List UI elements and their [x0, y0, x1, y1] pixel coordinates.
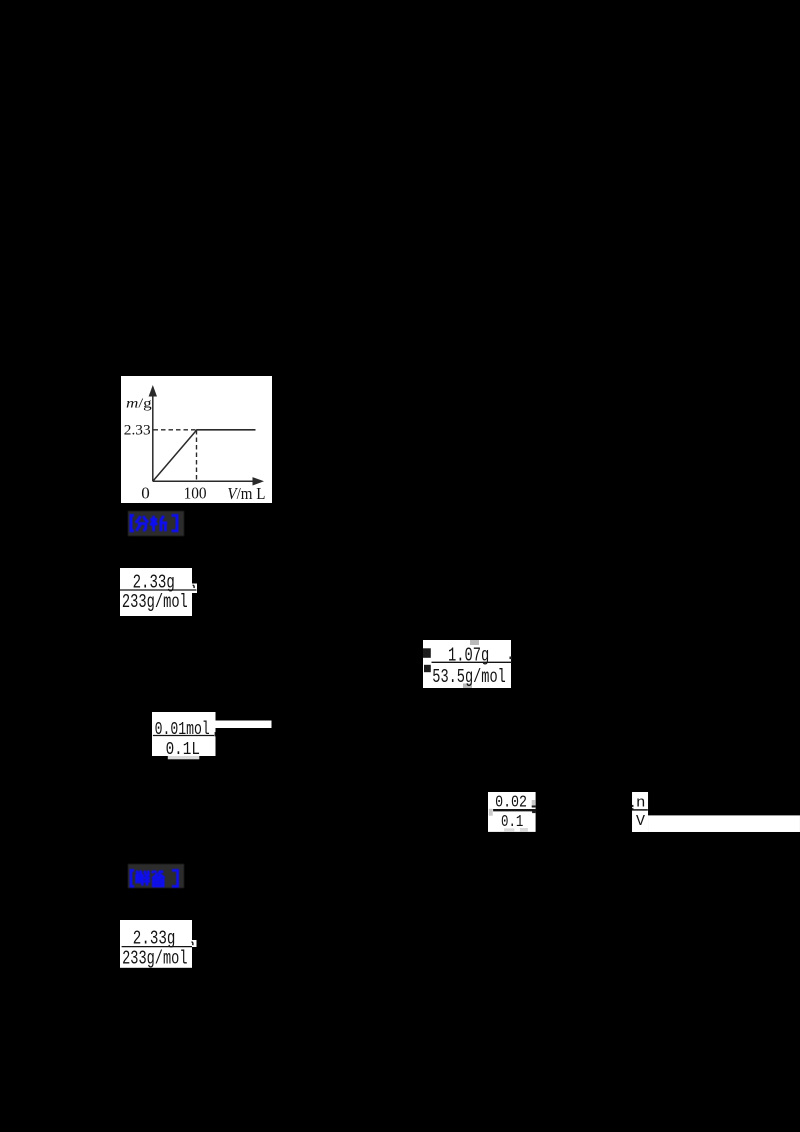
fraction image 1: 2.33g / 233g/mol	[120, 568, 197, 621]
fraction image 3: 0.01mol / 0.1L with white strip	[152, 712, 272, 765]
graph image: m/g vs V/mL chart	[121, 376, 272, 508]
left bracket	[131, 871, 134, 887]
fraction image 2: 1.07g / 53.5g/mol	[423, 640, 512, 694]
right bracket	[171, 516, 176, 531]
x-axis	[152, 481, 255, 483]
glyph fen	[135, 516, 148, 531]
svg-text:0.1: 0.1	[501, 813, 523, 832]
dashed horizontal at 2.33	[153, 429, 196, 431]
right bracket	[172, 871, 178, 887]
svg-text:100: 100	[183, 484, 206, 503]
solid plateau line	[196, 429, 255, 431]
svg-text:233g/mol: 233g/mol	[122, 947, 187, 968]
dashed vertical at 100	[195, 430, 197, 481]
highlighted label 1: 【分析】 blue bold on dark box	[128, 511, 184, 541]
fraction image 4: 0.02 / 0.1	[488, 792, 538, 837]
glyph da	[152, 871, 165, 886]
svg-text:m/g: m/g	[126, 396, 152, 411]
glyph jie	[136, 871, 150, 886]
svg-text:0.1L: 0.1L	[166, 740, 200, 760]
left bracket	[131, 516, 134, 531]
y-axis	[151, 393, 153, 481]
svg-text:V/m L: V/m L	[227, 484, 265, 503]
svg-text:233g/mol: 233g/mol	[122, 591, 188, 613]
svg-text:2.33: 2.33	[123, 423, 150, 439]
fraction image 6: 2.33g / 233g/mol (second)	[120, 920, 197, 973]
svg-text:n: n	[636, 794, 645, 811]
highlighted label 2: 【解答】 blue bold on dark box	[128, 864, 184, 893]
svg-text:V: V	[636, 813, 645, 830]
svg-text:53.5g/mol: 53.5g/mol	[432, 666, 506, 688]
glyph xi	[150, 516, 167, 531]
rising diagonal line	[152, 430, 196, 482]
svg-text:0: 0	[141, 484, 150, 503]
svg-text:0.01mol: 0.01mol	[155, 720, 210, 740]
fraction image 5: n / V with long white strip to right edge	[632, 792, 800, 837]
svg-text:1.07g: 1.07g	[448, 644, 489, 666]
